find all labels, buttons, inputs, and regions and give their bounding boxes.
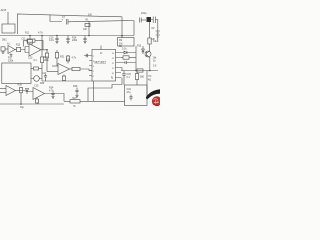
resistor R10 input bbox=[1, 47, 5, 51]
svg-text:IC: IC bbox=[100, 52, 103, 55]
node dot D bbox=[121, 35, 123, 37]
resistor R20 bbox=[63, 75, 65, 77]
logo ball shade bbox=[153, 104, 159, 106]
svg-text:10µ: 10µ bbox=[20, 107, 25, 109]
capacitor C18 bbox=[75, 88, 78, 96]
node dot E bbox=[46, 49, 48, 51]
svg-text:R28: R28 bbox=[18, 84, 23, 87]
resistor R31 bbox=[36, 98, 38, 99]
wire to op-amp N1 bbox=[5, 48, 8, 50]
battery box bbox=[2, 63, 31, 84]
wire to C1 bbox=[141, 19, 146, 21]
microphone BM1 box bbox=[2, 24, 15, 33]
wire N3 in2 bbox=[47, 71, 58, 73]
wire ground rail mid bbox=[42, 80, 92, 82]
capacitor C5 bbox=[86, 54, 87, 57]
resistor R4 bbox=[149, 22, 151, 38]
svg-text:4.7k: 4.7k bbox=[49, 89, 54, 92]
resistor R7 bbox=[121, 57, 123, 59]
ground C17 bbox=[51, 97, 54, 99]
wire pin11 down bbox=[121, 68, 122, 71]
wire N2 out bbox=[41, 49, 47, 51]
svg-text:220µ: 220µ bbox=[141, 12, 147, 15]
wire input stub bbox=[7, 12, 9, 24]
logo ball marks bbox=[153, 99, 158, 104]
svg-text:12: 12 bbox=[112, 63, 114, 65]
switch S1 bbox=[140, 18, 142, 23]
IC top pin stub bbox=[100, 46, 102, 50]
resistor R18 bbox=[31, 68, 34, 70]
svg-text:10: 10 bbox=[112, 73, 114, 75]
resistor R1 bbox=[85, 24, 90, 27]
svg-text:ANT: ANT bbox=[1, 8, 7, 12]
resistor R2 bbox=[17, 47, 21, 51]
wire C7 to rail bbox=[68, 21, 134, 22]
ground C10 bbox=[55, 42, 58, 44]
wire N3 in1 bbox=[52, 65, 58, 67]
ground R10 bbox=[2, 51, 5, 53]
feedback resistor R3 bbox=[24, 41, 28, 47]
wire right column bbox=[135, 46, 137, 71]
svg-text:1M: 1M bbox=[119, 42, 122, 45]
node dot F bbox=[20, 103, 22, 105]
svg-text:R27: R27 bbox=[73, 98, 78, 100]
wire C7 branch down bbox=[88, 21, 90, 35]
wire rect left edge bbox=[133, 21, 135, 36]
wire upper to rail bbox=[121, 17, 123, 38]
node dot C bbox=[88, 35, 90, 37]
transistor VT1 bbox=[145, 51, 151, 57]
svg-text:3: 3 bbox=[93, 61, 94, 63]
svg-text:5.1k: 5.1k bbox=[122, 48, 127, 51]
wire N1 out bbox=[15, 49, 17, 51]
svg-text:5: 5 bbox=[93, 71, 94, 73]
wire step to right bbox=[88, 85, 122, 102]
wire H3 rail bbox=[121, 70, 158, 72]
logo ball bbox=[152, 96, 162, 106]
svg-text:2M2: 2M2 bbox=[2, 40, 7, 42]
resistor R12 bbox=[29, 36, 31, 40]
svg-text:1W: 1W bbox=[88, 14, 92, 17]
wire rail right bbox=[80, 100, 125, 102]
resistor R15 bbox=[56, 50, 58, 53]
node dot B bbox=[56, 35, 58, 37]
svg-text:560: 560 bbox=[140, 76, 145, 79]
svg-text:9: 9 bbox=[112, 78, 113, 80]
svg-text:MZ1812: MZ1812 bbox=[95, 60, 107, 64]
fuse F1 bbox=[137, 69, 143, 72]
wire input bottom 2 bbox=[0, 92, 6, 94]
resistor R15b bbox=[45, 53, 48, 58]
resistor R19 bbox=[72, 67, 80, 70]
svg-text:13: 13 bbox=[112, 58, 114, 60]
wire bottom rail bbox=[0, 103, 64, 105]
capacitor C10 bbox=[55, 36, 58, 42]
wire N5 out bbox=[44, 94, 64, 102]
svg-text:100k: 100k bbox=[44, 59, 50, 62]
capacitor C2 bbox=[153, 17, 155, 24]
wire pin9 down bbox=[121, 78, 123, 85]
wire N4 out bbox=[15, 90, 21, 92]
wire N3 out bbox=[70, 68, 73, 70]
svg-text:C13: C13 bbox=[28, 57, 33, 60]
capacitor C16 bbox=[129, 95, 132, 101]
svg-text:C14: C14 bbox=[42, 72, 47, 75]
capacitor C9 bbox=[83, 36, 86, 42]
svg-text:6V: 6V bbox=[152, 27, 155, 30]
svg-text:C15: C15 bbox=[34, 85, 39, 88]
wire top rail branch bbox=[50, 15, 62, 22]
IC right pins bbox=[116, 53, 122, 78]
diode VD3 bbox=[26, 89, 29, 95]
IC left pins bbox=[84, 56, 92, 76]
output box bbox=[125, 85, 148, 106]
op-amp N4 bbox=[6, 86, 15, 96]
ground C12 bbox=[66, 42, 69, 44]
svg-text:14: 14 bbox=[112, 53, 114, 55]
capacitor C6 bbox=[121, 61, 136, 64]
svg-text:R30: R30 bbox=[40, 83, 45, 85]
capacitor C17 bbox=[51, 92, 54, 97]
resistor R25 bbox=[136, 71, 138, 74]
svg-text:4: 4 bbox=[93, 66, 94, 68]
op-amp N1 bbox=[8, 46, 15, 54]
svg-text:0.01: 0.01 bbox=[49, 39, 54, 42]
diode VD1 bbox=[121, 51, 136, 54]
svg-text:R13: R13 bbox=[16, 45, 21, 47]
svg-text:11: 11 bbox=[112, 68, 114, 70]
wire N5 gnd stub bbox=[37, 103, 39, 104]
svg-text:R10: R10 bbox=[137, 46, 142, 48]
svg-text:4.7k: 4.7k bbox=[38, 32, 43, 35]
op-amp N5 bbox=[33, 88, 44, 100]
wire left column bbox=[41, 36, 43, 58]
wire R19 to IC bbox=[80, 69, 92, 71]
wire R2 to N2 bbox=[21, 47, 29, 53]
op-amp N3 bbox=[58, 64, 70, 75]
wire C2 right bbox=[151, 20, 158, 43]
svg-text:6: 6 bbox=[93, 76, 94, 78]
capacitor C15b bbox=[122, 71, 125, 86]
svg-text:2: 2 bbox=[93, 56, 94, 58]
diode VD2 bbox=[142, 46, 145, 54]
svg-text:220k: 220k bbox=[8, 59, 14, 62]
wire N4 to N5 bbox=[21, 91, 33, 92]
resistor R17 bbox=[40, 57, 43, 63]
svg-text:4Ω: 4Ω bbox=[148, 79, 151, 82]
logo hat bbox=[146, 89, 160, 99]
ground C9 bbox=[83, 42, 86, 44]
ground C18 bbox=[75, 96, 78, 98]
capacitor C12 bbox=[66, 36, 69, 42]
wire input bottom 1 bbox=[0, 88, 6, 90]
resistor R22 bbox=[67, 55, 69, 56]
wire E down bbox=[46, 50, 48, 72]
resistor R27 bbox=[64, 100, 70, 102]
op-amp N2 bbox=[29, 44, 41, 56]
capacitor C7 bbox=[66, 19, 68, 25]
wire top rail bbox=[18, 14, 123, 34]
ground N1 bbox=[10, 54, 13, 56]
wire IC gnd down bbox=[93, 81, 95, 101]
capacitor C14 bbox=[44, 74, 47, 81]
svg-text:220k: 220k bbox=[72, 39, 78, 42]
svg-text:R21: R21 bbox=[60, 56, 65, 59]
svg-text:47µ: 47µ bbox=[127, 91, 132, 94]
wire speaker stub bbox=[146, 71, 148, 97]
wire mid rail bbox=[0, 35, 134, 37]
node dot A bbox=[29, 35, 31, 37]
transducer B1 bbox=[34, 76, 40, 82]
capacitor C1 body bbox=[147, 17, 152, 22]
battery GB bars bbox=[156, 31, 160, 37]
resistor R9 box bbox=[121, 36, 123, 38]
IC U1 MZ1812 bbox=[92, 50, 116, 82]
